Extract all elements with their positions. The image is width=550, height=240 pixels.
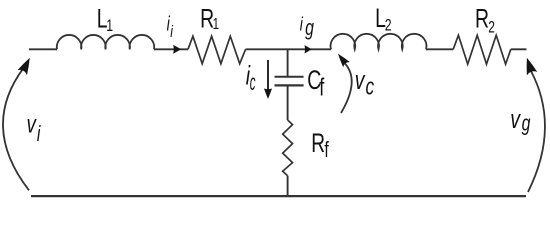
wire (511, 48, 527, 50)
wire (426, 48, 453, 50)
voltage arc vg (527, 58, 545, 192)
resistor R1 (188, 36, 246, 64)
label i_c (246, 60, 256, 95)
svg-text:i: i (170, 23, 173, 41)
label L1 (97, 3, 113, 35)
current arrow i_g (305, 45, 312, 53)
wire (287, 49, 289, 76)
svg-text:i: i (300, 13, 304, 35)
label i_g (300, 13, 314, 41)
voltage arc vc (338, 54, 352, 113)
wire (287, 87, 289, 121)
inductor L1 (57, 35, 154, 49)
label i_i (167, 12, 174, 41)
current arrow i_i (173, 45, 181, 54)
wire (246, 48, 331, 50)
resistor R2 (453, 35, 511, 64)
label vg (510, 104, 530, 136)
resistor Rf (283, 120, 293, 176)
label vi (27, 108, 42, 146)
svg-text:R: R (475, 3, 489, 33)
label vc (355, 65, 375, 101)
svg-text:f: f (324, 139, 329, 163)
svg-text:c: c (366, 74, 375, 100)
wire (287, 176, 289, 196)
svg-text:1: 1 (106, 17, 113, 35)
svg-text:v: v (355, 65, 366, 95)
label R1 (200, 3, 219, 33)
svg-text:c: c (250, 70, 256, 95)
inductor L2 (331, 34, 427, 50)
svg-text:v: v (510, 104, 521, 134)
svg-text:i: i (37, 123, 41, 147)
label L2 (375, 3, 392, 35)
label Cf (307, 65, 325, 101)
svg-text:R: R (311, 128, 325, 158)
svg-text:g: g (305, 17, 314, 41)
svg-text:2: 2 (385, 17, 392, 35)
label R2 (475, 3, 495, 37)
svg-text:g: g (522, 112, 531, 136)
capacitor Cf (275, 77, 304, 86)
svg-text:2: 2 (488, 19, 495, 37)
voltage arc vi (3, 58, 30, 191)
svg-text:v: v (27, 108, 38, 138)
svg-text:f: f (319, 72, 325, 101)
current arrow i_c (264, 60, 272, 99)
wire (31, 195, 526, 197)
label Rf (311, 128, 329, 163)
wire (29, 48, 57, 50)
wire (154, 48, 188, 50)
svg-text:1: 1 (213, 14, 220, 32)
